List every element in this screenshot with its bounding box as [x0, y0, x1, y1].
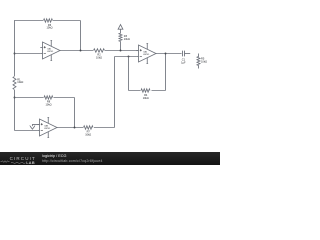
resistor R7 (series on OA3 output) [83, 125, 94, 130]
wire: OA3 output [57, 127, 115, 129]
op-amp OA2 (LM741) [136, 43, 156, 63]
junction: left rail / OA1 inverting [14, 53, 16, 55]
label R3 10kΩ [124, 34, 130, 41]
wire: OA3 output up to OA2 inverting [114, 57, 116, 128]
CircuitLab logo text [10, 157, 36, 162]
svg-text:10kΩ: 10kΩ [45, 103, 51, 107]
svg-text:10kΩ: 10kΩ [85, 133, 91, 137]
op-amp OA3 (LM741) [37, 117, 57, 137]
op-amp OA1 (LM741) [40, 40, 60, 60]
resistor R1 (gain resistor, vertical) [12, 76, 17, 90]
wire: OA2 feedback right vertical [165, 54, 167, 91]
junction: OA2 feedback tap [128, 56, 130, 58]
wire: OA2 output [156, 53, 182, 55]
wire: to OA1 inverting input [15, 53, 41, 55]
ground (down arrow) [30, 125, 35, 129]
wire: to OA3 inverting input [15, 130, 38, 132]
svg-text:LM741: LM741 [143, 54, 150, 56]
wire: OA3 non-inverting to ground [32, 125, 39, 127]
junction: R3 / signal net [120, 50, 122, 52]
label R5 10kΩ [201, 57, 207, 64]
capacitor C1 (series output cap) [183, 51, 185, 57]
wire: feedback drop x=80.5 [80, 21, 82, 51]
resistor R5 (vertical, right) [197, 54, 200, 69]
wire: OA2 feedback bottom horizontal [129, 90, 166, 92]
power flag V+ (up arrow) [118, 25, 123, 34]
resistor R3 (bias, vertical) [119, 33, 122, 41]
label R8 10kΩ [45, 100, 51, 107]
svg-text:10kΩ: 10kΩ [96, 56, 102, 60]
CircuitLab logo squiggles [0, 159, 40, 173]
wire: OA3 feedback drop [74, 98, 76, 128]
wire: OA1 output to OA2 non-inverting [60, 50, 139, 52]
schematic canvas [0, 0, 220, 165]
junction: left rail / OA3 feedback [14, 97, 16, 99]
footer url [42, 160, 103, 164]
wire: OA2 inverting input horizontal [115, 56, 137, 58]
resistor R6 (OA1 feedback) [43, 18, 53, 23]
wire: OA3 feedback horizontal [15, 97, 75, 99]
svg-text:1µF: 1µF [181, 60, 186, 64]
wire: OA2 feedback left vertical [128, 57, 130, 91]
svg-text:10kΩ: 10kΩ [201, 59, 207, 63]
junction: OA3 output feedback tap [74, 127, 76, 129]
junction: OA2 output / feedback [165, 53, 167, 55]
label C1 1µF [181, 57, 186, 64]
wire: left input rail vertical [14, 21, 16, 131]
svg-text:10kΩ: 10kΩ [143, 96, 149, 100]
label R6 10kΩ [46, 23, 52, 30]
label R2 10kΩ [96, 53, 102, 60]
wire: OA1 feedback top horizontal [14, 20, 80, 22]
label R4 10kΩ [143, 93, 149, 100]
resistor R2 (series) [93, 48, 105, 53]
svg-text:LM741: LM741 [44, 128, 51, 130]
junction: OA1 output feedback tap [80, 50, 82, 52]
label R7 10kΩ [85, 130, 91, 137]
wire: R3 to signal net [120, 42, 122, 51]
footer title [42, 155, 66, 159]
label R1 10kΩ [17, 77, 23, 84]
svg-text:LM741: LM741 [47, 51, 54, 53]
footer watermark bar [0, 152, 220, 166]
svg-text:10kΩ: 10kΩ [46, 26, 52, 30]
wire: after C1 [185, 53, 191, 55]
resistor R8 (OA3 feedback) [44, 95, 54, 100]
resistor R4 (OA2 feedback) [141, 88, 152, 93]
svg-text:10kΩ: 10kΩ [17, 80, 23, 84]
svg-text:10kΩ: 10kΩ [124, 37, 130, 41]
